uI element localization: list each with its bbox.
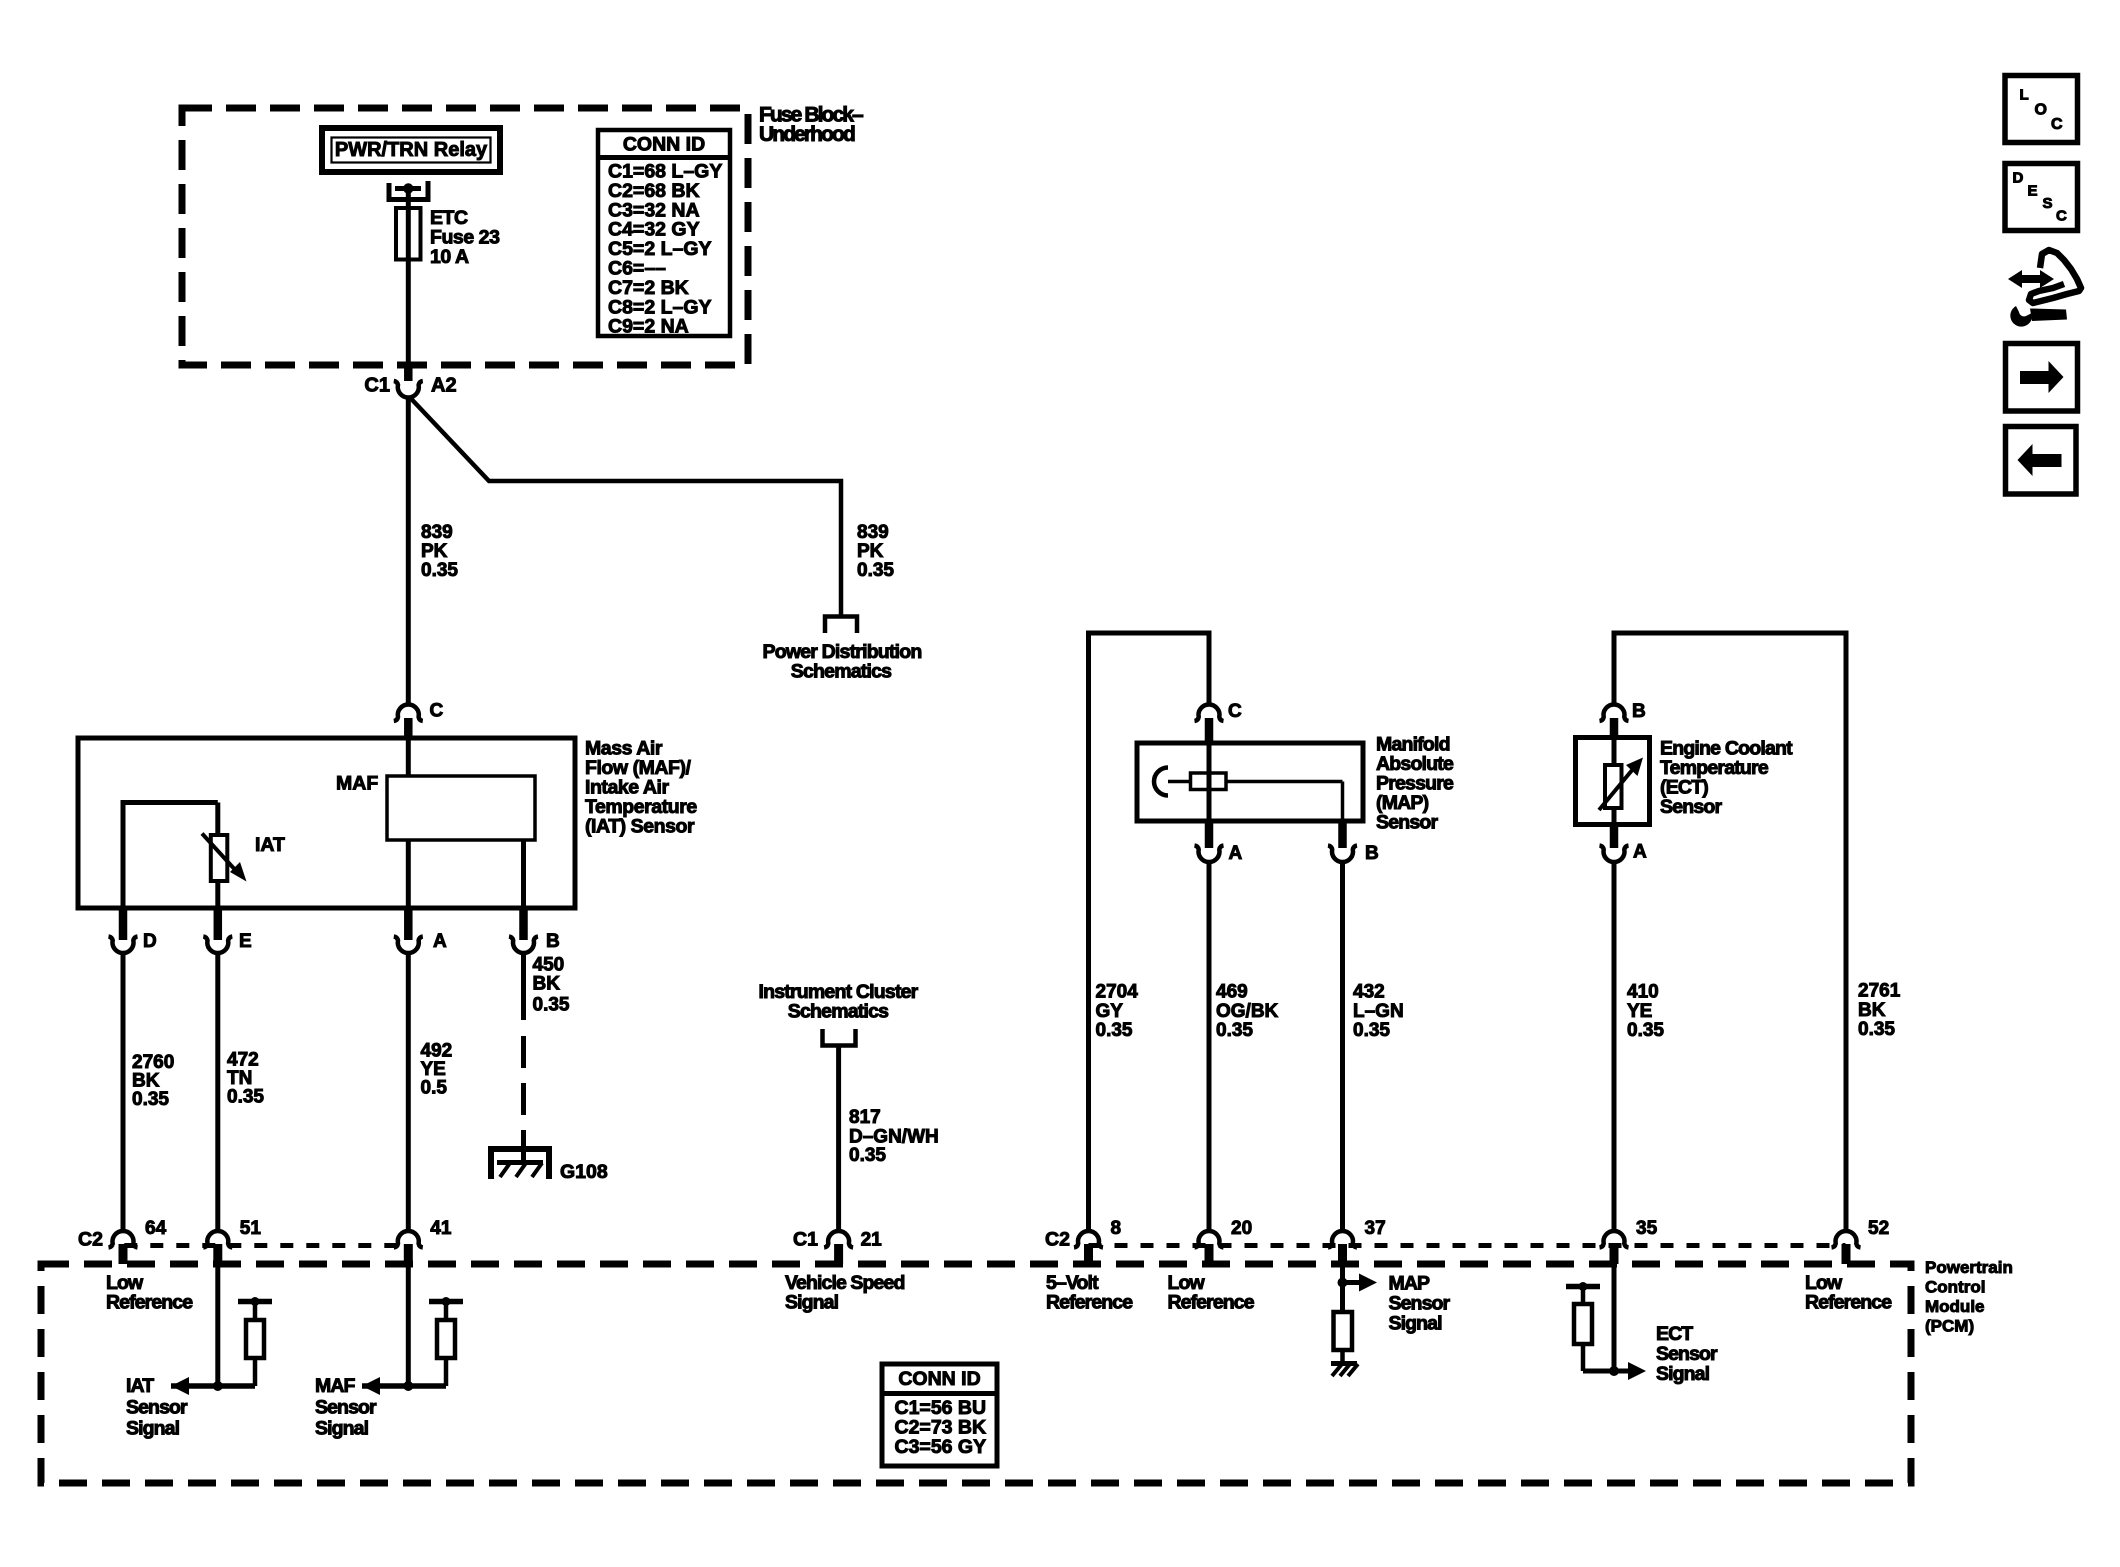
MAP transducer symbol [1154, 768, 1343, 822]
svg-text:C1: C1 [364, 374, 390, 396]
svg-text:Reference: Reference [1168, 1292, 1255, 1314]
svg-text:35: 35 [1636, 1218, 1658, 1239]
label C2 (left connector) [78, 1229, 103, 1251]
svg-text:Sensor: Sensor [126, 1397, 188, 1419]
svg-text:L–GN: L–GN [1353, 1001, 1404, 1022]
MAF/IAT sensor box [78, 738, 575, 908]
svg-text:YE: YE [1627, 1001, 1652, 1022]
conn id table (fuse block) [598, 130, 730, 338]
svg-text:Reference: Reference [106, 1292, 193, 1314]
svg-text:Module: Module [1925, 1297, 1985, 1316]
svg-text:Sensor: Sensor [1376, 812, 1439, 834]
svg-text:(PCM): (PCM) [1925, 1317, 1974, 1336]
svg-text:2704: 2704 [1096, 982, 1139, 1003]
wire MAF to pin B [521, 840, 526, 908]
label 817 D-GN/WH 0.35 [849, 1107, 939, 1166]
svg-text:O: O [2035, 102, 2047, 119]
label MAF sensor signal [315, 1375, 377, 1440]
svg-text:B: B [1365, 843, 1379, 864]
wire 5-volt reference loop [1089, 633, 1210, 1232]
connector pin B (MAP) [1328, 821, 1379, 864]
svg-text:PWR/TRN Relay: PWR/TRN Relay [335, 139, 488, 161]
svg-text:0.5: 0.5 [421, 1078, 448, 1099]
svg-text:Reference: Reference [1805, 1292, 1892, 1314]
wire 469 OG/BK [1207, 862, 1212, 1233]
svg-text:C: C [2056, 207, 2067, 224]
connector pin C (MAF) [394, 701, 444, 739]
svg-text:0.35: 0.35 [1858, 1019, 1895, 1040]
svg-text:51: 51 [240, 1218, 262, 1239]
MAP signal junction and arrow [1338, 1274, 1378, 1292]
connector pin B (ECT) [1600, 701, 1646, 738]
PCM pin 35 [1600, 1218, 1658, 1264]
svg-text:A: A [1633, 842, 1647, 863]
svg-text:2761: 2761 [1858, 981, 1901, 1002]
svg-text:10 A: 10 A [430, 246, 469, 268]
ECT signal junction and arrow [1609, 1362, 1646, 1380]
label C2 (right connector) [1045, 1229, 1070, 1251]
wire 410 YE [1612, 862, 1617, 1233]
svg-text:PK: PK [421, 541, 448, 562]
connector pin A (MAF) [394, 908, 447, 953]
svg-text:Signal: Signal [315, 1418, 369, 1440]
svg-text:D: D [2013, 169, 2024, 186]
MAF pull-up resistor [429, 1297, 463, 1386]
svg-text:Signal: Signal [1389, 1313, 1443, 1335]
IAT pull-up resistor [238, 1297, 272, 1386]
wire 450 BK (solid part) [521, 953, 526, 1020]
svg-text:Sensor: Sensor [1660, 796, 1723, 818]
ECT sensor box [1576, 738, 1650, 825]
wire pin 35 into PCM [1612, 1264, 1617, 1371]
svg-text:C: C [2051, 116, 2063, 133]
svg-text:41: 41 [430, 1218, 452, 1239]
PCM pin 37 [1328, 1218, 1386, 1264]
conn id table (PCM) [882, 1364, 997, 1466]
connector pin C (MAP) [1195, 701, 1243, 744]
label 839 PK 0.35 left [421, 522, 458, 581]
PCM pin 8 [1074, 1218, 1121, 1264]
svg-text:817: 817 [849, 1107, 881, 1128]
svg-text:BK: BK [533, 974, 561, 995]
label vehicle speed signal [785, 1272, 904, 1314]
PCM pin 41 [394, 1218, 452, 1264]
icon schematic navigator (arrow + wrench) [2008, 250, 2081, 327]
connector pin A (ECT) [1600, 825, 1648, 863]
icon LOC box [2005, 76, 2078, 143]
connector pin D [109, 908, 157, 953]
svg-text:C: C [430, 701, 444, 722]
svg-text:839: 839 [857, 522, 889, 543]
svg-text:CONN ID: CONN ID [623, 134, 705, 156]
svg-text:450: 450 [533, 955, 565, 976]
svg-text:0.35: 0.35 [1096, 1020, 1133, 1041]
wire C through MAP [1207, 744, 1212, 821]
label low reference (pin 52) [1805, 1272, 1892, 1314]
wire 839 PK right branch [409, 397, 841, 615]
svg-text:Signal: Signal [1656, 1363, 1710, 1385]
PCM pin 21 [824, 1230, 882, 1264]
svg-text:GY: GY [1096, 1001, 1124, 1022]
svg-text:C9=2 NA: C9=2 NA [608, 316, 689, 338]
svg-text:0.35: 0.35 [132, 1089, 169, 1110]
wire 817 D-GN/WH [836, 1046, 841, 1233]
svg-text:410: 410 [1627, 982, 1659, 1003]
PCM internal ground [1331, 1364, 1358, 1377]
svg-text:C2: C2 [78, 1229, 103, 1251]
label C1 (connector) [793, 1229, 818, 1251]
svg-text:0.35: 0.35 [1353, 1020, 1390, 1041]
svg-text:G108: G108 [560, 1161, 608, 1183]
PCM pin 51 [203, 1218, 261, 1264]
wire fuse to C1 connector [406, 260, 411, 367]
label 2761 BK 0.35 [1858, 981, 1901, 1040]
svg-text:A: A [1229, 843, 1243, 864]
svg-text:0.35: 0.35 [227, 1087, 264, 1108]
svg-text:PK: PK [857, 541, 884, 562]
svg-text:Signal: Signal [785, 1292, 839, 1314]
label G108 [560, 1161, 608, 1183]
label ECT sensor signal [1656, 1323, 1718, 1385]
label MAP sensor signal [1389, 1273, 1451, 1335]
svg-text:S: S [2043, 195, 2053, 212]
MAP pull-down resistor [1334, 1312, 1353, 1364]
svg-text:Sensor: Sensor [1389, 1293, 1451, 1315]
wire C into MAF [406, 739, 411, 776]
IAT signal junction and arrow [171, 1377, 255, 1395]
svg-text:IAT: IAT [126, 1375, 154, 1397]
svg-text:0.35: 0.35 [1627, 1020, 1664, 1041]
label instrument cluster schematics [759, 981, 919, 1023]
wire pin 51 into PCM [215, 1264, 220, 1386]
label 410 YE 0.35 [1627, 982, 1664, 1041]
svg-text:0.35: 0.35 [1216, 1020, 1253, 1041]
icon back box (left arrow) [2006, 427, 2077, 495]
off-page connector to power distribution [825, 617, 857, 634]
icon DESC box [2005, 164, 2078, 231]
fuse block label [759, 104, 864, 147]
svg-text:Underhood: Underhood [759, 123, 855, 146]
ground G108 [488, 1149, 552, 1179]
svg-text:469: 469 [1216, 982, 1248, 1003]
relay output terminal [387, 181, 431, 200]
svg-text:IAT: IAT [255, 834, 285, 856]
connector pin E [203, 908, 251, 953]
wire through fuse [406, 208, 411, 261]
svg-text:L: L [2020, 86, 2029, 103]
label low reference (pin 64) [106, 1272, 193, 1314]
svg-text:Signal: Signal [126, 1418, 180, 1440]
label 432 L-GN 0.35 [1353, 982, 1404, 1041]
wire 450 BK dashed to ground [521, 1036, 526, 1151]
wire 472 TN [215, 953, 220, 1232]
svg-text:0.35: 0.35 [533, 995, 570, 1016]
connector pin B (MAF) [509, 908, 560, 953]
svg-text:MAP: MAP [1389, 1273, 1431, 1295]
svg-text:B: B [1632, 701, 1646, 722]
svg-text:21: 21 [861, 1230, 883, 1251]
svg-text:MAF: MAF [315, 1375, 356, 1397]
svg-text:ECT: ECT [1656, 1323, 1693, 1345]
svg-text:C1: C1 [793, 1229, 818, 1251]
svg-text:C2: C2 [1045, 1229, 1070, 1251]
svg-text:C3=56 GY: C3=56 GY [895, 1436, 987, 1458]
label IAT sensor signal [126, 1375, 188, 1440]
fuse block - underhood dashed box [182, 108, 748, 365]
wire 2760 BK [121, 953, 126, 1232]
svg-text:Schematics: Schematics [788, 1001, 889, 1023]
svg-text:OG/BK: OG/BK [1216, 1001, 1279, 1022]
label powertrain control module [1925, 1258, 2013, 1336]
svg-text:A2: A2 [431, 374, 457, 396]
svg-text:0.35: 0.35 [849, 1145, 886, 1166]
svg-text:Schematics: Schematics [791, 661, 892, 683]
svg-text:A: A [433, 931, 447, 952]
svg-text:Sensor: Sensor [1656, 1343, 1718, 1365]
label low reference (pin 20) [1168, 1272, 1255, 1314]
label 469 OG/BK 0.35 [1216, 982, 1279, 1041]
svg-text:C: C [1228, 701, 1242, 722]
svg-text:CONN ID: CONN ID [898, 1368, 980, 1390]
label engine coolant temperature sensor [1660, 738, 1793, 819]
MAP sensor box [1137, 743, 1363, 821]
IAT thermistor [202, 834, 285, 882]
svg-text:432: 432 [1353, 982, 1385, 1003]
fuse ETC Fuse 23 10A [396, 207, 500, 268]
svg-text:D: D [143, 931, 157, 952]
wire through ECT [1612, 739, 1617, 825]
svg-text:BK: BK [1858, 1000, 1886, 1021]
IAT internal wiring [121, 803, 218, 909]
label 5-volt reference [1046, 1272, 1133, 1314]
label 2760 BK 0.35 [132, 1052, 174, 1110]
svg-text:(IAT) Sensor: (IAT) Sensor [585, 816, 695, 838]
icon next box (right arrow) [2006, 344, 2078, 412]
svg-text:52: 52 [1868, 1218, 1889, 1239]
svg-text:0.35: 0.35 [857, 560, 894, 581]
wire pin 41 into PCM [406, 1264, 411, 1386]
wire 839 PK left (C1 to MAF C) [406, 396, 411, 707]
label 472 TN 0.35 [227, 1050, 264, 1108]
label 2704 GY 0.35 [1096, 982, 1139, 1041]
connector dotted line C2 right [1089, 1243, 1846, 1248]
ECT pull-up resistor [1566, 1282, 1614, 1371]
off-page connector from instrument cluster [823, 1029, 856, 1046]
svg-text:839: 839 [421, 522, 453, 543]
PCM pin 20 [1195, 1218, 1253, 1264]
svg-text:64: 64 [145, 1218, 167, 1239]
PCM pin 64 [109, 1218, 167, 1264]
wire ECT loop to pin 52 [1614, 633, 1846, 1232]
svg-text:37: 37 [1365, 1218, 1386, 1239]
wire MAF to pin A [406, 840, 411, 908]
connector C1 pin A2 [364, 364, 456, 398]
wire 492 YE [406, 953, 411, 1232]
connector pin A (MAP) [1195, 821, 1243, 864]
MAF signal junction and arrow [362, 1377, 446, 1395]
svg-text:Powertrain: Powertrain [1925, 1258, 2013, 1277]
connector dotted line C2 left [124, 1243, 408, 1248]
label power distribution schematics [763, 641, 922, 683]
relay PWR/TRN box [322, 128, 500, 172]
label mass air flow sensor [585, 738, 697, 838]
svg-text:20: 20 [1231, 1218, 1252, 1239]
svg-text:8: 8 [1111, 1218, 1122, 1239]
svg-text:E: E [239, 931, 252, 952]
MAF element [336, 773, 535, 841]
wire pin 37 into PCM [1340, 1264, 1345, 1312]
svg-text:Reference: Reference [1046, 1292, 1133, 1314]
PCM dashed box [41, 1264, 1911, 1483]
svg-text:MAF: MAF [336, 773, 378, 795]
label manifold absolute pressure sensor [1376, 734, 1454, 834]
label 492 YE 0.5 [421, 1041, 453, 1099]
wire 432 L-GN [1340, 862, 1345, 1233]
svg-text:Sensor: Sensor [315, 1397, 377, 1419]
label 450 BK 0.35 [533, 955, 570, 1016]
label 839 PK 0.35 right [857, 522, 894, 581]
PCM pin 52 [1832, 1218, 1890, 1264]
ECT thermistor [1599, 758, 1643, 811]
wire relay to fuse [406, 189, 411, 209]
svg-text:E: E [2028, 182, 2038, 199]
svg-text:Control: Control [1925, 1278, 1985, 1297]
svg-text:B: B [546, 931, 560, 952]
svg-text:0.35: 0.35 [421, 560, 458, 581]
